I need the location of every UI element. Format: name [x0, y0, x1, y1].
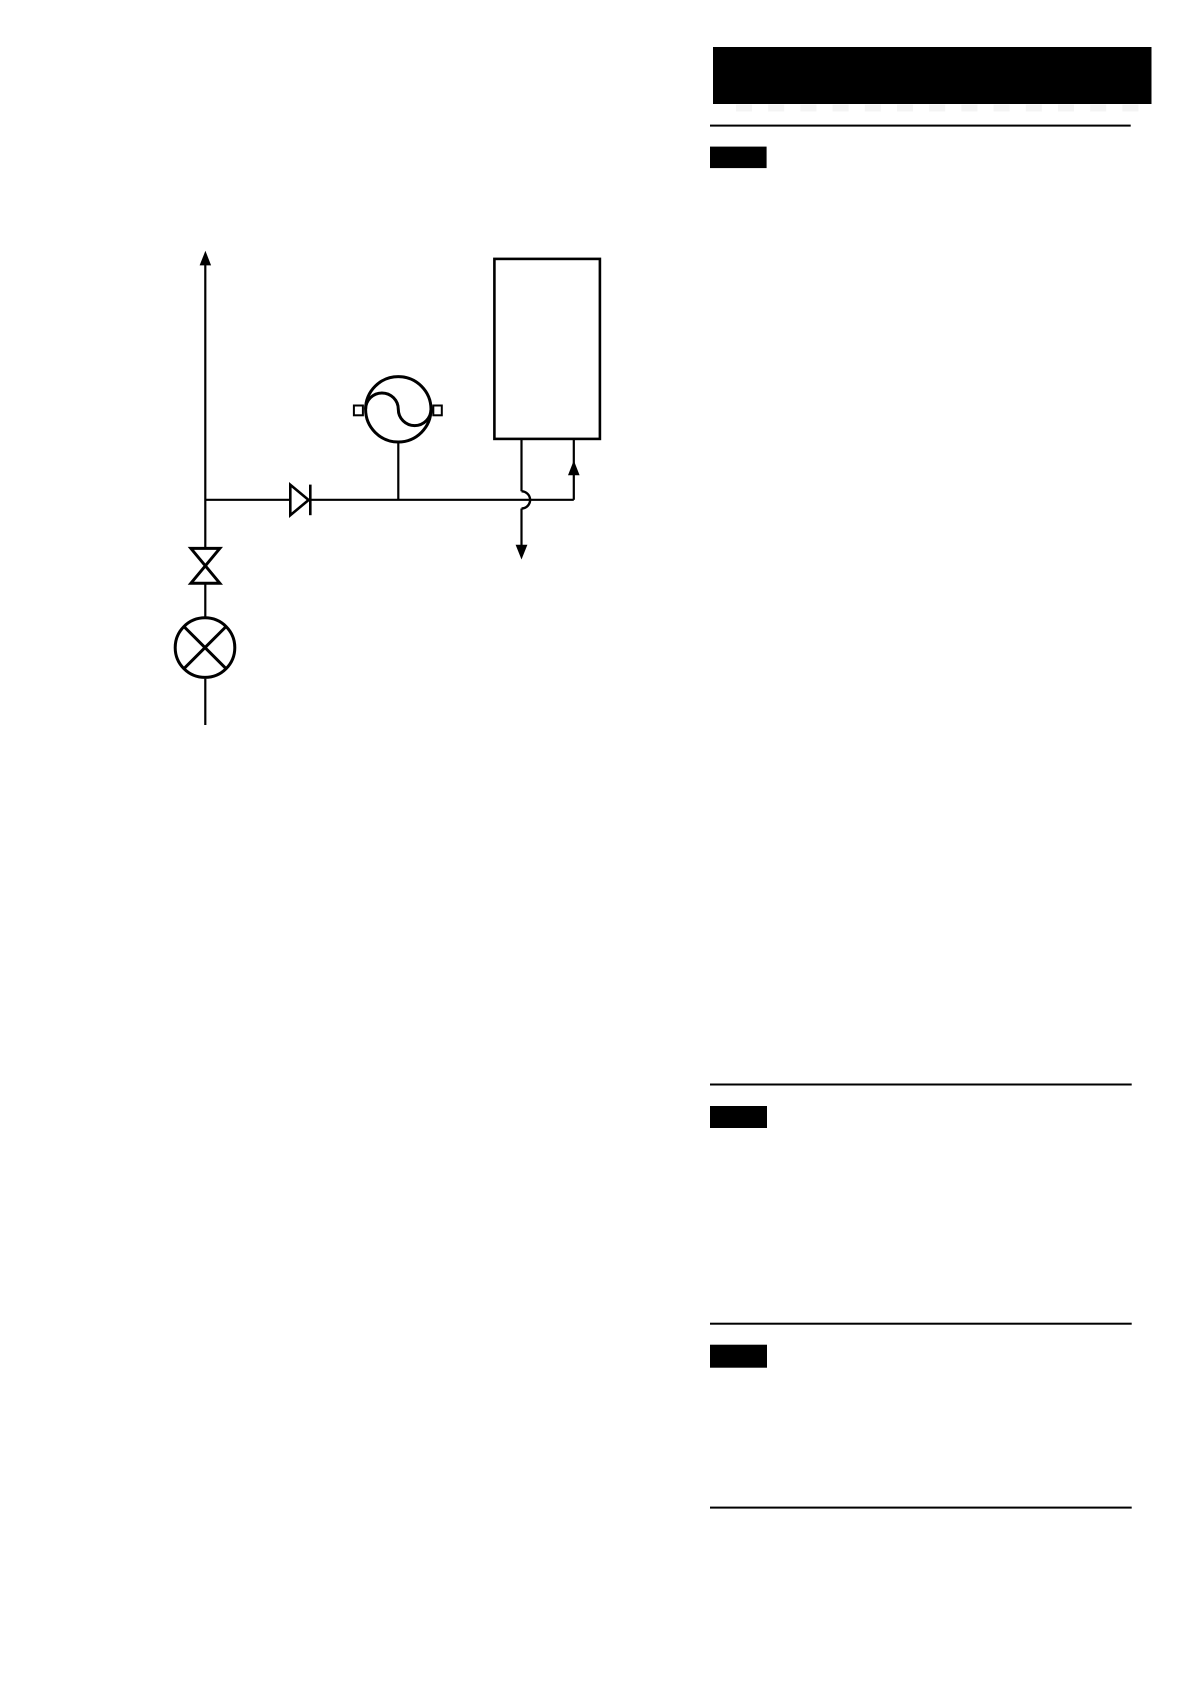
- wire: boiler left pipe upper: [520, 439, 522, 491]
- arrow down (drain below hop): [516, 545, 528, 560]
- rule 4: [710, 1507, 1132, 1509]
- rule 1: [710, 125, 1131, 127]
- header redaction bar: [713, 47, 1152, 104]
- redacted text remnant ticks: [736, 105, 1138, 112]
- arrow up (riser outlet): [200, 251, 212, 266]
- wire: main horizontal pipe: [205, 499, 574, 501]
- wire: meter tap vertical: [397, 443, 399, 500]
- check valve: [290, 485, 308, 515]
- gas meter circle: [366, 377, 431, 442]
- note badge 2: [710, 1106, 767, 1128]
- wire: bottom stub: [204, 679, 206, 725]
- note badge 1: [710, 147, 767, 169]
- rule 3: [710, 1323, 1132, 1325]
- crossed-circle X stroke 2: [184, 627, 226, 669]
- arrow up (flow into boiler): [568, 460, 580, 475]
- wire: main riser vertical: [204, 265, 206, 550]
- boiler box: [494, 259, 600, 439]
- wire: riser valve-to-meter segment: [204, 583, 206, 619]
- check valve seat bar: [309, 485, 312, 516]
- gas meter right port: [433, 406, 442, 416]
- rule 2: [710, 1084, 1132, 1086]
- wire: boiler right pipe: [573, 439, 575, 500]
- pipe hop (line jump): [522, 491, 531, 508]
- gas meter left port: [354, 406, 363, 416]
- note badge 3: [710, 1345, 767, 1368]
- wire: boiler left pipe lower: [520, 509, 522, 547]
- shutoff valve (bowtie): [191, 548, 220, 583]
- lamp / crossed-circle device: [175, 618, 235, 678]
- crossed-circle X stroke 1: [184, 627, 226, 669]
- gas meter sine curve: [366, 393, 431, 426]
